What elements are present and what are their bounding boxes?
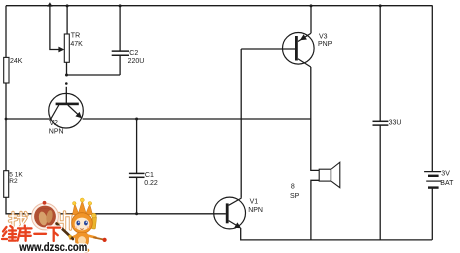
svg-text:SP: SP bbox=[290, 193, 300, 200]
svg-text:TR: TR bbox=[71, 33, 80, 40]
svg-text:V3: V3 bbox=[319, 33, 328, 40]
svg-text:BAT: BAT bbox=[440, 180, 454, 187]
svg-text:V1: V1 bbox=[250, 199, 259, 206]
svg-text:C1: C1 bbox=[145, 172, 154, 179]
svg-text:NPN: NPN bbox=[49, 128, 64, 135]
svg-text:R2: R2 bbox=[9, 178, 18, 185]
svg-text:3V: 3V bbox=[441, 171, 450, 178]
svg-text:V2: V2 bbox=[49, 120, 58, 127]
svg-text:www.dzsc.com: www.dzsc.com bbox=[18, 242, 87, 253]
svg-text:220U: 220U bbox=[128, 58, 145, 65]
svg-text:8: 8 bbox=[291, 183, 295, 190]
svg-text:C2: C2 bbox=[129, 50, 138, 57]
svg-text:0.22: 0.22 bbox=[144, 180, 158, 187]
svg-text:NPN: NPN bbox=[248, 207, 263, 214]
svg-text:PNP: PNP bbox=[318, 41, 333, 48]
svg-text:24K: 24K bbox=[10, 58, 23, 65]
svg-text:47K: 47K bbox=[70, 41, 83, 48]
svg-text:33U: 33U bbox=[389, 120, 402, 127]
